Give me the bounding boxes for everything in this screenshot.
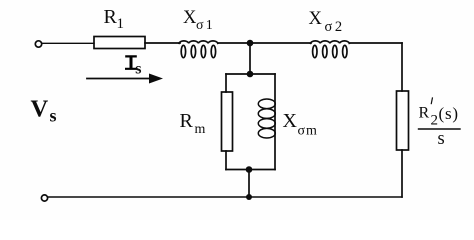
svg-text:s: s <box>135 61 141 78</box>
svg-text:s: s <box>50 106 57 126</box>
svg-text:X: X <box>183 8 197 28</box>
svg-text:X: X <box>309 9 323 29</box>
svg-text:X: X <box>283 110 298 132</box>
svg-text:R: R <box>180 110 194 132</box>
svg-text:σ1: σ1 <box>196 18 215 33</box>
svg-text:m: m <box>195 122 206 137</box>
svg-text:R: R <box>419 105 430 122</box>
svg-text:(s): (s) <box>439 104 459 123</box>
svg-text:R: R <box>104 6 118 28</box>
svg-text:s: s <box>438 129 445 149</box>
svg-text:σm: σm <box>298 124 318 139</box>
svg-text:σ2: σ2 <box>325 19 345 35</box>
svg-text:V: V <box>31 96 49 123</box>
svg-text:1: 1 <box>117 16 125 32</box>
svg-text:2: 2 <box>431 113 439 129</box>
